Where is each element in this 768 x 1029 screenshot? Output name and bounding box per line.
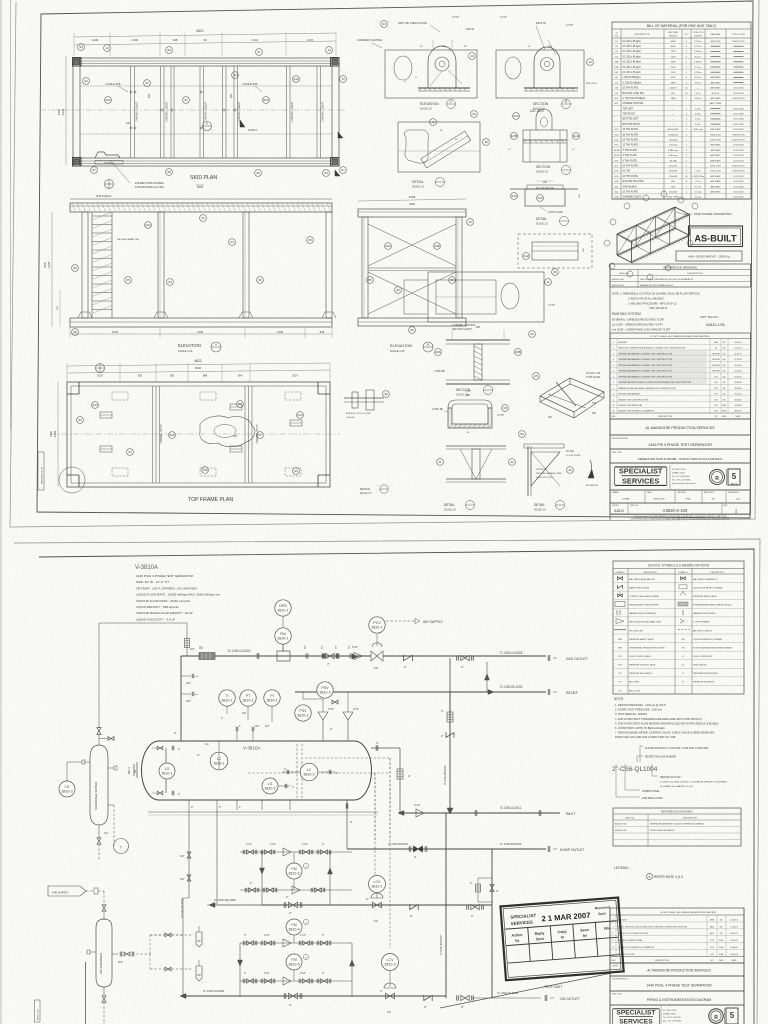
- skid plan centre line: [40, 109, 345, 111]
- svg-text:6": 6": [174, 731, 177, 735]
- svg-text:2": 2": [471, 914, 474, 918]
- oil line fittings: [187, 852, 191, 855]
- gas line arrow: [352, 654, 358, 659]
- svg-text:DO NOT SCALE - ALL DIMENSION: DO NOT SCALE - ALL DIMENSIONS ARE IN MIL…: [650, 335, 710, 338]
- svg-text:2438: 2438: [61, 108, 65, 115]
- svg-text:S15B: S15B: [510, 134, 517, 138]
- svg-text:A3810: A3810: [614, 509, 624, 513]
- svg-text:DETAIL: DETAIL: [444, 503, 455, 507]
- svg-text:3810-5: 3810-5: [288, 962, 299, 966]
- svg-text:3008: 3008: [671, 46, 677, 48]
- air supply dashes to scrubber: [86, 890, 94, 892]
- svg-text:SIZE: 42" ID - 10'-0" T/T: SIZE: 42" ID - 10'-0" T/T: [136, 580, 169, 584]
- svg-text:3": 3": [244, 972, 246, 975]
- svg-text:SHS 40x40x3: SHS 40x40x3: [96, 195, 112, 198]
- svg-text:R: R: [715, 476, 719, 482]
- svg-text:SECTION (LEFT): SECTION (LEFT): [452, 327, 472, 331]
- svg-text:GUSSETED: GUSSETED: [536, 469, 548, 471]
- svg-text:2 Nos.: 2 Nos.: [695, 124, 701, 126]
- svg-text:DATE: DATE: [732, 959, 738, 962]
- skid frame isometric: [617, 228, 675, 255]
- svg-text:RELIEF: RELIEF: [566, 691, 578, 695]
- svg-text:ASTM A36: ASTM A36: [711, 128, 722, 131]
- svg-text:20": 20": [133, 769, 137, 773]
- svg-text:24.26 m: 24.26 m: [694, 41, 702, 43]
- svg-text:55: 55: [368, 278, 372, 282]
- svg-text:2. HYDRO TEST PRESSURE - 216: 2. HYDRO TEST PRESSURE - 2160 psi: [615, 708, 662, 712]
- svg-text:SCALE 1:5: SCALE 1:5: [536, 171, 548, 174]
- svg-text:S7: S7: [258, 433, 262, 437]
- svg-text:REV.: REV.: [611, 960, 616, 962]
- LCV 3810-1: [369, 876, 386, 893]
- svg-text:FO: FO: [619, 682, 622, 684]
- bottom sheet inner border frame: [34, 549, 754, 1026]
- svg-text:UC 203 x 86 kg/m: UC 203 x 86 kg/m: [623, 46, 641, 48]
- right bypass loop strainers: [478, 877, 492, 879]
- svg-text:ISSUED FOR REVIEW & COMMENTS: ISSUED FOR REVIEW & COMMENTS: [619, 411, 655, 413]
- svg-text:5.0 ton: 5.0 ton: [695, 196, 702, 199]
- svg-text:JOB DESCRIPTION: JOB DESCRIPTION: [612, 438, 629, 440]
- elevation column 3: [243, 212, 249, 318]
- vessel weir dashed: [296, 744, 298, 798]
- oil outlet: [472, 997, 541, 999]
- svg-text:C TYP.: C TYP.: [500, 17, 507, 19]
- svg-text:S16: S16: [293, 77, 299, 81]
- svg-text:REVISED AS MARKED & ISSUED FOR: REVISED AS MARKED & ISSUED FOR CONSTRUCT…: [619, 352, 673, 355]
- device symbols table: [613, 561, 744, 694]
- left dashed air header: [149, 935, 151, 954]
- svg-text:ROD #40 DIA LONG: ROD #40 DIA LONG: [536, 186, 555, 189]
- left margin file strip: [38, 452, 44, 490]
- svg-text:02.02.07: 02.02.07: [734, 353, 741, 355]
- svg-text:2"x3": 2"x3": [328, 707, 334, 711]
- svg-text:3/4": 3/4": [255, 724, 260, 728]
- water line big valve: [289, 902, 294, 908]
- svg-text:LIQUID FLOW RATE : 13000 bbl: LIQUID FLOW RATE : 13000 bbl/day MAX- 60…: [136, 593, 220, 597]
- svg-text:RING 55: RING 55: [536, 22, 546, 25]
- svg-text:S5C: S5C: [614, 72, 619, 74]
- svg-text:3/4": 3/4": [190, 647, 195, 651]
- svg-text:3"-CS6-IL1001: 3"-CS6-IL1001: [500, 806, 521, 810]
- elevation datum circle: [99, 180, 101, 182]
- svg-text:Fax : 971 4 3472446: Fax : 971 4 3472446: [672, 480, 691, 482]
- svg-text:12.01 m: 12.01 m: [694, 46, 702, 48]
- svg-text:BALL VALVE VALVE BALOON: BALL VALVE VALVE BALOON: [629, 578, 655, 581]
- elevation left step dims: [59, 290, 61, 327]
- oil end valve: [461, 995, 465, 1000]
- svg-text:UC 203 x 86 kg/m: UC 203 x 86 kg/m: [623, 51, 641, 53]
- svg-text:PAINTING SYSTEM: PAINTING SYSTEM: [612, 312, 641, 316]
- svg-text:Sent: Sent: [598, 912, 606, 917]
- svg-text:S5B: S5B: [614, 67, 619, 69]
- PR dashed connections: [150, 934, 193, 936]
- svg-text:DIFFERENTIAL PRESSURE RECORDER: DIFFERENTIAL PRESSURE RECORDER: [629, 646, 665, 649]
- svg-text:TEST LIMIT: TEST LIMIT: [544, 985, 562, 989]
- PSV isolation valves: [332, 700, 335, 704]
- svg-text:OIL OUTLET: OIL OUTLET: [560, 997, 580, 1001]
- svg-text:S12: S12: [523, 254, 529, 258]
- skid plan outer frame - top rail: [73, 58, 339, 66]
- dump outlet line: [347, 848, 546, 850]
- inlet line: [400, 812, 560, 814]
- svg-text:20 THK PLATE: 20 THK PLATE: [623, 139, 639, 142]
- air supply dashed line to PCV: [386, 620, 415, 622]
- svg-text:16.08.06: 16.08.06: [730, 940, 739, 942]
- svg-text:DESCRIPTION: DESCRIPTION: [683, 817, 697, 819]
- svg-text:LENGTH: LENGTH: [694, 36, 702, 38]
- svg-text:PSA: PSA: [719, 953, 724, 956]
- frame plan datum circle: [96, 364, 105, 373]
- svg-text:APG/JM: APG/JM: [712, 364, 719, 367]
- svg-text:PSA: PSA: [686, 498, 691, 501]
- top frame plan left dim: [57, 382, 59, 487]
- svg-text:125x200: 125x200: [669, 140, 678, 142]
- svg-text:SCALE 1:20: SCALE 1:20: [390, 349, 405, 353]
- svg-text:SCALE 1:5: SCALE 1:5: [420, 108, 432, 111]
- svg-text:05: 05: [308, 238, 312, 242]
- svg-text:25: 25: [534, 374, 538, 378]
- boot drain to dump: [346, 800, 348, 849]
- svg-text:3"-CS6-BP1007: 3"-CS6-BP1007: [443, 765, 447, 785]
- svg-text:ISSUED FOR IDC: ISSUED FOR IDC: [618, 954, 635, 956]
- svg-text:ROD #40 LONG 350: ROD #40 LONG 350: [623, 93, 645, 95]
- svg-text:1.2 m: 1.2 m: [695, 181, 700, 183]
- company box: [610, 419, 751, 435]
- svg-text:4.498 m: 4.498 m: [694, 51, 702, 53]
- PSV 3810-2: [295, 705, 311, 721]
- svg-text:MH-1: MH-1: [127, 767, 131, 774]
- sample line top run: [99, 622, 187, 624]
- svg-text:FW: FW: [681, 639, 684, 641]
- svg-text:DWG. TITLE: DWG. TITLE: [612, 452, 623, 454]
- svg-text:UC 203 x 86 kg/m: UC 203 x 86 kg/m: [623, 72, 641, 74]
- svg-text:REVISED AS MARKED & ISSUED FOR: REVISED AS MARKED & ISSUED FOR CONSTRUCT…: [619, 370, 673, 373]
- svg-text:ALB: ALB: [710, 925, 714, 928]
- svg-text:SCALE W A1: SCALE W A1: [728, 491, 739, 494]
- svg-text:PRESSURE INDICATOR: PRESSURE INDICATOR: [693, 681, 715, 684]
- svg-text:1/2": 1/2": [104, 831, 109, 835]
- svg-text:CHANNEL 150x75: CHANNEL 150x75: [291, 101, 294, 122]
- svg-text:939: 939: [320, 330, 325, 334]
- svg-text:3810-1: 3810-1: [371, 884, 382, 888]
- svg-text:4. FOR HYDROTEST STRAINERS ARE: 4. FOR HYDROTEST STRAINERS ARE REPLACED …: [615, 717, 703, 721]
- svg-text:AS BUILT: AS BUILT: [619, 341, 629, 344]
- svg-text:1"x3": 1"x3": [300, 934, 306, 937]
- svg-text:M16 BOLT W/ LOCK NUT: M16 BOLT W/ LOCK NUT: [346, 413, 372, 415]
- svg-text:03A: 03A: [385, 244, 390, 248]
- svg-text:FROM THE GAS LINE FOR HYDRO TE: FROM THE GAS LINE FOR HYDRO TEST OF LINE…: [615, 735, 677, 739]
- tester LG 3810-3: [59, 781, 75, 797]
- svg-text:2 HSC #B: 2 HSC #B: [434, 370, 445, 373]
- svg-text:2": 2": [219, 805, 221, 809]
- svg-text:Sent: Sent: [536, 937, 545, 942]
- instrument PCV 3810-1: [369, 617, 385, 633]
- svg-text:SMS: SMS: [714, 342, 719, 344]
- svg-text:4.27 m: 4.27 m: [695, 186, 702, 188]
- svg-text:3/4": 3/4": [118, 960, 123, 964]
- svg-text:ISSUED FOR APPROVAL: ISSUED FOR APPROVAL: [619, 404, 644, 407]
- elevation bottom rail: [70, 318, 332, 327]
- svg-text:NOTE-1: NOTE-1: [248, 128, 258, 132]
- vessel right head nozzle 4in: [371, 747, 400, 749]
- svg-text:70/35 sqm: 70/35 sqm: [693, 129, 703, 131]
- svg-text:2438: 2438: [47, 261, 51, 268]
- svg-text:S15A: S15A: [614, 149, 620, 152]
- upper manifold FM meter: [286, 863, 302, 879]
- svg-text:S355 J2G3: S355 J2G3: [710, 171, 721, 173]
- isometric balloons: [604, 240, 610, 246]
- svg-text:3"x1": 3"x1": [264, 934, 270, 937]
- svg-text:M24 HOLE: M24 HOLE: [586, 83, 597, 85]
- isometric drip pan: [540, 378, 604, 412]
- svg-text:PARENT DETAIL REVISED & ISSUED: PARENT DETAIL REVISED & ISSUED FOR CONST…: [619, 387, 677, 390]
- svg-text:NOTE: 1. DIMENSION & LOCATION: NOTE: 1. DIMENSION & LOCATION OF CHANNEL…: [612, 293, 701, 296]
- svg-text:L 90x75x250kg/m: L 90x75x250kg/m: [623, 77, 641, 79]
- svg-text:26: 26: [568, 468, 572, 472]
- svg-text:SEPARATOR SKID & FRAME - STRUC: SEPARATOR SKID & FRAME - STRUCTURAL PLAN…: [638, 457, 722, 461]
- svg-text:3": 3": [380, 989, 383, 993]
- svg-text:MAX. GROSS WEIGHT - 13000 Kg: MAX. GROSS WEIGHT - 13000 Kg: [689, 255, 730, 259]
- svg-text:SPECIALIST: SPECIALIST: [616, 1010, 655, 1017]
- svg-text:1440 PSIG, 3 PHASE TEST SEPARA: 1440 PSIG, 3 PHASE TEST SEPARATOR: [646, 984, 712, 988]
- svg-text:20 20 0174: 20 20 0174: [733, 93, 744, 95]
- svg-text:19.01.07: 19.01.07: [734, 348, 741, 350]
- svg-text:55: 55: [126, 278, 130, 282]
- svg-text:DWG A3810-S-100: DWG A3810-S-100: [41, 466, 44, 484]
- detail D3 flag: [338, 132, 343, 138]
- svg-text:Fax : 971 4 3472446: Fax : 971 4 3472446: [663, 1021, 682, 1023]
- ladder rails: [91, 212, 93, 318]
- svg-text:120: 120: [126, 122, 131, 125]
- svg-text:CHANNEL 150x75: CHANNEL 150x75: [136, 101, 139, 122]
- svg-text:SPECIALIST: SPECIALIST: [619, 467, 663, 476]
- svg-text:A3810-S-100: A3810-S-100: [663, 508, 688, 513]
- svg-text:200: 200: [543, 181, 548, 184]
- svg-text:SHS 40x40x3: SHS 40x40x3: [623, 186, 638, 188]
- svg-text:(TYP): (TYP): [465, 391, 471, 393]
- svg-text:7. SENIOR DANIEL METER, CONTRO: 7. SENIOR DANIEL METER, CONTROL VALVE, C…: [615, 731, 714, 735]
- svg-text:S3: S3: [382, 22, 386, 26]
- svg-text:Action: Action: [511, 933, 522, 938]
- svg-text:REVISED AS MARKED & ISSUED FOR: REVISED AS MARKED & ISSUED FOR CONSTRUCT…: [619, 375, 673, 378]
- svg-text:4 HOLE #36: 4 HOLE #36: [105, 82, 121, 86]
- specialist services block bottom: [610, 1005, 744, 1026]
- svg-text:A3810-1/06: A3810-1/06: [706, 323, 725, 327]
- svg-text:04: 04: [230, 240, 234, 244]
- svg-text:CHKD: CHKD: [721, 416, 727, 418]
- svg-text:1341: 1341: [252, 38, 259, 42]
- bottom sheet paper edge: [8, 539, 760, 1026]
- title block right border: [743, 908, 745, 1026]
- upper manifold arrows: [260, 868, 265, 874]
- svg-text:4": 4": [376, 741, 379, 745]
- skid plan outer frame - bottom rail: [73, 158, 339, 166]
- svg-text:ASTM A36: ASTM A36: [711, 76, 722, 79]
- svg-text:10 THK PLATE: 10 THK PLATE: [623, 128, 639, 131]
- svg-text:2 Nos.: 2 Nos.: [695, 108, 701, 110]
- svg-text:1B: 1B: [503, 406, 507, 410]
- svg-text:LIQUID FLOWMETER (TURBINE): LIQUID FLOWMETER (TURBINE): [693, 639, 722, 641]
- svg-text:2300: 2300: [57, 108, 61, 115]
- svg-text:2155: 2155: [671, 56, 677, 58]
- svg-text:PCV: PCV: [618, 665, 623, 667]
- detail D5 rod plate: [510, 188, 578, 190]
- skid plan corner casting top-left: [73, 58, 82, 67]
- elevation column 4: [326, 212, 332, 318]
- svg-text:57: 57: [92, 168, 96, 172]
- svg-text:SCALE 1:3: SCALE 1:3: [360, 492, 372, 495]
- svg-text:NON STOCK: NON STOCK: [732, 41, 745, 43]
- detail D2 corner casting section: [496, 50, 584, 98]
- svg-text:140x140: 140x140: [669, 165, 678, 167]
- svg-text:LG: LG: [682, 665, 685, 667]
- svg-text:- WPS 135-GB-10: - WPS 135-GB-10: [648, 307, 668, 310]
- svg-text:3810-1: 3810-1: [277, 636, 288, 640]
- svg-text:20A: 20A: [435, 350, 440, 354]
- svg-text:14: 14: [327, 48, 331, 52]
- svg-text:3": 3": [461, 1005, 464, 1009]
- svg-text:FO: FO: [374, 666, 379, 670]
- svg-text:DUMP OUTLET: DUMP OUTLET: [560, 848, 584, 852]
- svg-text:DPR: DPR: [618, 647, 623, 649]
- detail D4 pad eye section: [523, 130, 567, 162]
- svg-text:ISSUED FOR CONSTRUCTION: ISSUED FOR CONSTRUCTION: [619, 399, 649, 401]
- svg-text:PR: PR: [197, 974, 201, 977]
- svg-text:2"-CS6-QL1004: 2"-CS6-QL1004: [612, 766, 658, 773]
- svg-text:20.09.06: 20.09.06: [734, 382, 741, 384]
- svg-text:120x112: 120x112: [669, 145, 678, 147]
- svg-text:REFERENCE DRAWING: REFERENCE DRAWING: [663, 265, 697, 269]
- shrinkage tester vessel: [90, 745, 108, 825]
- svg-text:988: 988: [203, 374, 208, 378]
- svg-text:15: 15: [468, 220, 472, 224]
- svg-text:CHANNEL 150x75: CHANNEL 150x75: [322, 101, 325, 122]
- svg-text:3"-CS6-OL1006: 3"-CS6-OL1006: [203, 989, 225, 993]
- svg-text:20 20 0282: 20 20 0282: [733, 176, 744, 178]
- svg-text:ASTM A36: ASTM A36: [711, 154, 722, 157]
- svg-text:3810-1: 3810-1: [161, 771, 172, 775]
- svg-text:46 20 0405: 46 20 0405: [733, 124, 744, 126]
- svg-text:SMS: SMS: [710, 919, 715, 921]
- svg-text:3.96 m: 3.96 m: [695, 82, 702, 84]
- svg-text:PROCESS LINE: PROCESS LINE: [629, 630, 644, 632]
- skid plan longitudinal stringer lines: [80, 85, 332, 87]
- top frame plan corner angles: [67, 382, 79, 394]
- svg-text:DWG. NO: DWG. NO: [619, 273, 629, 275]
- svg-text:MEDIUM OF FLOW: MEDIUM OF FLOW: [660, 777, 681, 779]
- 6 inch gas riser from vessel: [180, 656, 182, 741]
- detail D6 dashed plate detail: [518, 234, 592, 268]
- svg-text:SECTION: SECTION: [533, 102, 549, 106]
- svg-text:6 THK PLATE: 6 THK PLATE: [623, 159, 638, 162]
- section H-beam: [446, 339, 510, 341]
- skid plan bent rod step detail: [95, 152, 120, 158]
- svg-text:24.11.06: 24.11.06: [734, 371, 741, 373]
- svg-text:ISSUED FOR REVIEW & COMMENTS: ISSUED FOR REVIEW & COMMENTS: [618, 947, 655, 949]
- svg-text:DUBAI, U.A.E.: DUBAI, U.A.E.: [672, 472, 685, 475]
- svg-text:SKID PLAN: SKID PLAN: [190, 175, 217, 181]
- svg-text:PSA: PSA: [719, 946, 724, 949]
- PR regulator flags: [196, 932, 202, 947]
- svg-text:LADDER FRAME 25M: LADDER FRAME 25M: [117, 238, 139, 241]
- svg-text:20 20 0215: 20 20 0215: [733, 88, 744, 90]
- svg-text:5. FOR HYDROTEST FLOW METERS A: 5. FOR HYDROTEST FLOW METERS ARE REPLACE…: [615, 721, 719, 725]
- svg-text:0.884 sqm: 0.884 sqm: [668, 150, 678, 152]
- svg-text:APG/JM: APG/JM: [712, 370, 719, 373]
- svg-text:DESCRIPTION: DESCRIPTION: [655, 960, 670, 962]
- svg-text:S14: S14: [297, 413, 303, 417]
- svg-text:J: J: [613, 348, 614, 350]
- svg-text:S14A: S14A: [572, 134, 579, 138]
- svg-text:A3810-P-501: A3810-P-501: [615, 823, 628, 826]
- ladder rungs: [92, 215, 112, 217]
- svg-text:DWG. TITLE: DWG. TITLE: [612, 994, 622, 996]
- oil line main: [183, 995, 446, 997]
- svg-text:CHANNEL 150x75: CHANNEL 150x75: [623, 196, 643, 199]
- svg-text:REVISED AS MARKED & ISSUED FOR: REVISED AS MARKED & ISSUED FOR CONSTRUCT…: [619, 358, 673, 361]
- svg-text:6"x3": 6"x3": [352, 645, 358, 649]
- title column reference drawing table: [610, 264, 751, 287]
- end elevation top rail: [358, 209, 466, 217]
- svg-text:3810-3: 3810-3: [384, 962, 395, 966]
- svg-text:UC 203 x 86 kg/m: UC 203 x 86 kg/m: [623, 62, 641, 64]
- svg-text:AIR SUPPLY: AIR SUPPLY: [52, 891, 69, 895]
- elevation base angle clips: [78, 312, 92, 318]
- svg-text:FLOW STRAINER(STRAIGHTENING VA: FLOW STRAINER(STRAIGHTENING VANES): [693, 646, 733, 649]
- svg-text:PSH: PSH: [618, 639, 623, 641]
- svg-text:1. DESIGN PRESSURE - 1440 ps: 1. DESIGN PRESSURE - 1440 psi @ 200 'F: [615, 703, 667, 707]
- water check valve: [409, 904, 411, 910]
- svg-text:2"-CS6-DP1004: 2"-CS6-DP1004: [500, 842, 522, 846]
- svg-text:ASTM A36: ASTM A36: [711, 81, 722, 84]
- svg-text:6040: 6040: [195, 366, 202, 370]
- svg-text:SCALE 1:5: SCALE 1:5: [534, 509, 546, 512]
- svg-text:UNIT SIZE/: UNIT SIZE/: [668, 32, 679, 34]
- svg-text:RESPECTIVE LINE NUMBER: RESPECTIVE LINE NUMBER: [645, 757, 676, 759]
- svg-text:6668: 6668: [671, 41, 677, 43]
- svg-text:GA & NOZZLE ORIENTATION FOR 14: GA & NOZZLE ORIENTATION FOR 1440 PSI SEP…: [640, 278, 694, 281]
- LC2 nozzle links: [282, 771, 301, 773]
- svg-text:UC 203 x 86 kg/m: UC 203 x 86 kg/m: [623, 67, 641, 69]
- svg-text:09.08.06: 09.08.06: [730, 947, 739, 949]
- svg-text:1440 PSI 3 PHASE TEST SEPARATO: 1440 PSI 3 PHASE TEST SEPARATOR: [648, 443, 712, 447]
- svg-text:DL=DRAIN, WL=WATER, OL=OIL: DL=DRAIN, WL=WATER, OL=OIL: [660, 785, 694, 788]
- svg-text:20 20 0254: 20 20 0254: [733, 155, 744, 157]
- svg-text:2135: 2135: [671, 186, 677, 188]
- svg-text:6622: 6622: [194, 359, 201, 363]
- scrubber side nozzles: [90, 951, 96, 953]
- svg-text:53: 53: [233, 73, 237, 77]
- svg-text:3/4": 3/4": [186, 681, 191, 685]
- svg-text:3": 3": [461, 665, 464, 669]
- sample line valve at tester: [97, 728, 101, 731]
- svg-text:P.O. BOX 2154: P.O. BOX 2154: [672, 469, 686, 471]
- vessel bottom nozzles: [188, 800, 190, 810]
- svg-text:A: A: [215, 343, 217, 347]
- svg-text:2 Nos.: 2 Nos.: [695, 119, 701, 121]
- svg-text:PIPING PLAN & ELEVATION: PIPING PLAN & ELEVATION: [650, 829, 675, 832]
- top frame plan outer rect: [67, 382, 330, 487]
- FM 3810-5 meter: [286, 954, 302, 970]
- svg-text:09.11.06: 09.11.06: [734, 376, 741, 378]
- svg-text:CARBON STEEL: CARBON STEEL: [642, 790, 660, 793]
- svg-text:PAD EYE CONTINUE PLATE ADDED &: PAD EYE CONTINUE PLATE ADDED & ISSUED FO…: [619, 347, 686, 350]
- svg-text:LIQUID VISCOSITY : 3.5 cP: LIQUID VISCOSITY : 3.5 cP: [136, 617, 175, 621]
- detail D3 inclined brace: [398, 122, 480, 172]
- svg-text:UC 203 x 86 kg/m: UC 203 x 86 kg/m: [623, 41, 641, 43]
- LCV 3810-3: [382, 954, 399, 971]
- svg-text:1340: 1340: [277, 330, 284, 334]
